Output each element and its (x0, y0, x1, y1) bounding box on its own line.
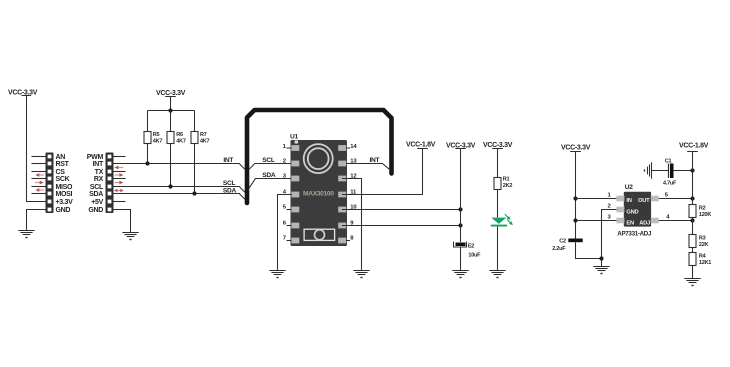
svg-text:2K2: 2K2 (503, 183, 513, 189)
wire MOSI stub (32, 193, 46, 195)
svg-text:CS: CS (56, 169, 66, 176)
junction (pin 9 / VCC rail) (458, 223, 462, 227)
wire U1 pin 4 to ground (278, 195, 293, 271)
power flag VCC-3.3V (R1/LED branch) (483, 142, 513, 149)
wire RST stub (32, 163, 46, 165)
svg-text:14: 14 (350, 144, 357, 150)
svg-text:VCC-3.3V: VCC-3.3V (156, 90, 186, 97)
svg-text:INT: INT (93, 161, 104, 168)
wire R2 to R3 (692, 218, 694, 235)
svg-text:R2: R2 (699, 206, 706, 212)
wire GND pin of J2 to ground (113, 210, 130, 233)
wire MISO stub (32, 186, 46, 188)
power flag VCC-1.8V (U1) (406, 142, 436, 149)
svg-text:VCC-3.3V: VCC-3.3V (8, 90, 38, 97)
wire U1 pin 10 to VCC-3.3V rail (342, 209, 461, 211)
svg-text:R5: R5 (153, 132, 160, 138)
ground (E2) (452, 271, 468, 278)
wire to U2 pin 1 (IN) (576, 198, 617, 200)
capacitor C2 (2.2uF) (568, 239, 582, 243)
wire R7 bottom to SDA (194, 144, 196, 194)
ground (U1 pin 4) (269, 271, 285, 278)
resistor R4 (689, 253, 696, 266)
wire VCC to pull-up rail (170, 97, 172, 111)
svg-text:C2: C2 (559, 239, 566, 245)
svg-text:VCC-3.3V: VCC-3.3V (561, 145, 591, 152)
junction (R6/SCL) (168, 184, 172, 188)
svg-text:ADJ: ADJ (639, 220, 650, 226)
wire RX stub (113, 178, 125, 180)
wire U2 pin 2 (GND) to ground (602, 210, 617, 267)
svg-text:MISO: MISO (56, 184, 74, 191)
wire LED to ground (497, 227, 499, 271)
svg-text:+5V: +5V (91, 199, 103, 206)
junction (R5/INT) (145, 161, 149, 165)
svg-text:R3: R3 (699, 235, 706, 241)
wire VCC-3.3V down to E2 (460, 149, 462, 243)
svg-text:E2: E2 (468, 243, 474, 249)
wire net SCL from bus to U1 pin 2 (249, 164, 295, 170)
svg-text:U1: U1 (290, 134, 298, 141)
wire R3 to R4 (692, 248, 694, 253)
svg-text:INT: INT (223, 157, 233, 164)
junction (C2/GND) (599, 256, 603, 260)
svg-text:GND: GND (626, 209, 638, 215)
svg-text:4K7: 4K7 (176, 139, 186, 145)
svg-text:SDA: SDA (89, 191, 103, 198)
wire U1 pin 12 to ground (342, 179, 362, 271)
svg-text:RST: RST (56, 161, 70, 168)
svg-text:EN: EN (626, 220, 634, 226)
junction (OUT) (690, 196, 694, 200)
power flag VCC-3.3V (E2 branch) (446, 142, 476, 149)
svg-text:4: 4 (666, 215, 670, 221)
junction (ADJ) (690, 218, 694, 222)
wire VCC-1.8V rail down to R2 (692, 152, 694, 205)
ground (C1, sideways) (645, 162, 652, 178)
svg-text:SCK: SCK (56, 176, 70, 183)
wire net SDA from bus to U1 pin 3 (248, 179, 295, 190)
capacitor E2 (10uF polarized) (454, 242, 467, 248)
svg-text:PWM: PWM (87, 154, 104, 161)
header J1 (mikroBUS left) (46, 153, 54, 214)
arrow INT direction (left) (114, 166, 123, 170)
ground (below header J1) (18, 231, 34, 238)
ground (R4) (684, 279, 700, 286)
wire pull-up top rail (148, 110, 195, 112)
resistor R2 (689, 205, 696, 218)
arrow RX direction (right) (115, 181, 124, 185)
svg-text:5: 5 (283, 205, 287, 211)
junction (VCC / pull-up rail) (168, 108, 172, 112)
wire PWM stub (113, 156, 125, 158)
wire AN stub (32, 156, 46, 158)
svg-text:7: 7 (283, 236, 287, 242)
svg-text:4K7: 4K7 (200, 139, 210, 145)
svg-text:OUT: OUT (638, 198, 650, 204)
svg-text:4.7uF: 4.7uF (663, 181, 677, 187)
right pads (338, 145, 346, 151)
wire R6 bottom to SCL (170, 144, 172, 187)
svg-text:22K: 22K (699, 242, 709, 248)
svg-text:R1: R1 (503, 177, 510, 183)
svg-text:4K7: 4K7 (153, 139, 163, 145)
svg-text:VCC-3.3V: VCC-3.3V (483, 142, 513, 149)
svg-text:INT: INT (370, 157, 380, 164)
wire GND pin of J1 to ground (27, 210, 46, 231)
junction (U2 EN) (573, 218, 577, 222)
wire net INT from U1 pin 13 to bus (342, 164, 389, 170)
resistor R1 (494, 178, 501, 190)
IC U1 MAX30100 (291, 140, 348, 246)
wire to U2 pin 3 (EN) (576, 220, 617, 222)
LED LD1 (green) (491, 214, 513, 226)
wire TX stub (113, 171, 125, 173)
svg-text:SCL: SCL (223, 180, 236, 187)
wire R1 to LED (497, 190, 499, 218)
wire U2 pin 5 (OUT) to VCC-1.8V rail (659, 198, 693, 200)
arrow SCK direction (right) (35, 181, 44, 185)
pin-1 marker (295, 141, 298, 144)
power flag VCC-1.8V (output) (679, 142, 709, 151)
wire U1 pin 9 to VCC-3.3V rail (342, 225, 461, 227)
junction (pin 10 / VCC rail) (458, 207, 462, 211)
arrow TX direction (right) (115, 173, 124, 177)
wire net INT from J2 to bus (113, 164, 245, 170)
svg-text:U2: U2 (625, 184, 633, 191)
svg-text:MAX30100: MAX30100 (303, 191, 334, 198)
wire U1 pin 11 to VCC-1.8V (342, 149, 423, 195)
svg-text:GND: GND (88, 207, 103, 214)
ground (U2 GND) (593, 267, 609, 274)
svg-text:IN: IN (626, 198, 631, 204)
bus (thick I2C/INT bus) (247, 110, 392, 203)
wire R6 top (170, 111, 172, 132)
arrow CS direction (left) (35, 173, 44, 177)
power flag VCC-3.3V (pull-ups) (156, 90, 186, 97)
svg-text:120K: 120K (699, 212, 711, 218)
svg-text:VCC-3.3V: VCC-3.3V (446, 142, 476, 149)
svg-text:SCL: SCL (262, 157, 275, 164)
arrow MISO direction (left) (35, 188, 44, 192)
svg-text:VCC-1.8V: VCC-1.8V (406, 142, 436, 149)
wire R7 top (194, 111, 196, 132)
resistor R7 (191, 132, 198, 144)
capacitor C1 (4.7uF) (652, 164, 693, 179)
svg-text:SDA: SDA (223, 187, 237, 194)
regulator U2 AP7331-ADJ (616, 192, 658, 227)
resistor R5 (144, 132, 151, 144)
left pads (291, 145, 299, 151)
svg-text:5: 5 (665, 193, 669, 199)
LED window (304, 229, 335, 240)
svg-text:R4: R4 (699, 253, 707, 259)
svg-text:1: 1 (283, 144, 287, 150)
svg-text:6: 6 (283, 221, 287, 227)
svg-text:AP7331-ADJ: AP7331-ADJ (617, 231, 652, 238)
ground (below header J2) (122, 233, 138, 240)
ground (U1 pin 12) (353, 271, 369, 278)
svg-text:VCC-1.8V: VCC-1.8V (679, 142, 709, 149)
svg-text:2: 2 (608, 204, 612, 210)
svg-text:SCL: SCL (90, 184, 104, 191)
wire +5V stub (113, 201, 125, 203)
svg-text:1: 1 (608, 193, 612, 199)
wire VCC to R1 (497, 149, 499, 178)
svg-text:10uF: 10uF (468, 252, 481, 258)
svg-text:GND: GND (56, 207, 71, 214)
wire E2 to ground (460, 247, 462, 271)
wire net SDA from J2 to bus (113, 194, 245, 200)
junction (C1 / VCC-1.8V) (690, 168, 694, 172)
junction (U2 IN) (573, 196, 577, 200)
svg-text:R6: R6 (176, 132, 183, 138)
svg-text:3: 3 (608, 215, 612, 221)
svg-text:R7: R7 (200, 132, 207, 138)
svg-text:AN: AN (56, 154, 66, 161)
svg-text:13: 13 (350, 159, 357, 165)
svg-text:MOSI: MOSI (56, 191, 73, 198)
ground (LED) (489, 271, 505, 278)
svg-text:2.2uF: 2.2uF (552, 246, 566, 252)
power flag VCC-3.3V (U2 input) (561, 145, 591, 152)
wire CS stub (32, 171, 46, 173)
wire R5 top (147, 111, 149, 132)
wire SCK stub (32, 178, 46, 180)
arrow SCL direction (both) (114, 189, 123, 193)
wire U2 pin 4 (ADJ) to divider (659, 220, 693, 222)
resistor R3 (689, 235, 696, 248)
resistor R6 (167, 132, 174, 144)
svg-text:C1: C1 (665, 159, 672, 165)
wire net SCL from J2 to bus (113, 187, 245, 193)
sensor window circle (304, 144, 333, 173)
wire R4 to ground (692, 266, 694, 279)
wire C2 to GND net (576, 242, 602, 258)
wire VCC-3.3V down to C2 (575, 152, 577, 239)
svg-text:8: 8 (350, 236, 354, 242)
svg-text:12K1: 12K1 (699, 260, 711, 266)
header J2 (mikroBUS right) (106, 153, 114, 214)
svg-text:SDA: SDA (262, 172, 276, 179)
svg-text:TX: TX (95, 169, 104, 176)
svg-text:+3.3V: +3.3V (56, 199, 74, 206)
wire VCC-3.3V rail to +3.3V pin of J1 (27, 96, 46, 202)
power flag VCC-3.3V (header J1) (8, 90, 38, 97)
wire R5 bottom to INT (147, 144, 149, 164)
junction (R7/SDA) (192, 191, 196, 195)
svg-text:RX: RX (94, 176, 104, 183)
